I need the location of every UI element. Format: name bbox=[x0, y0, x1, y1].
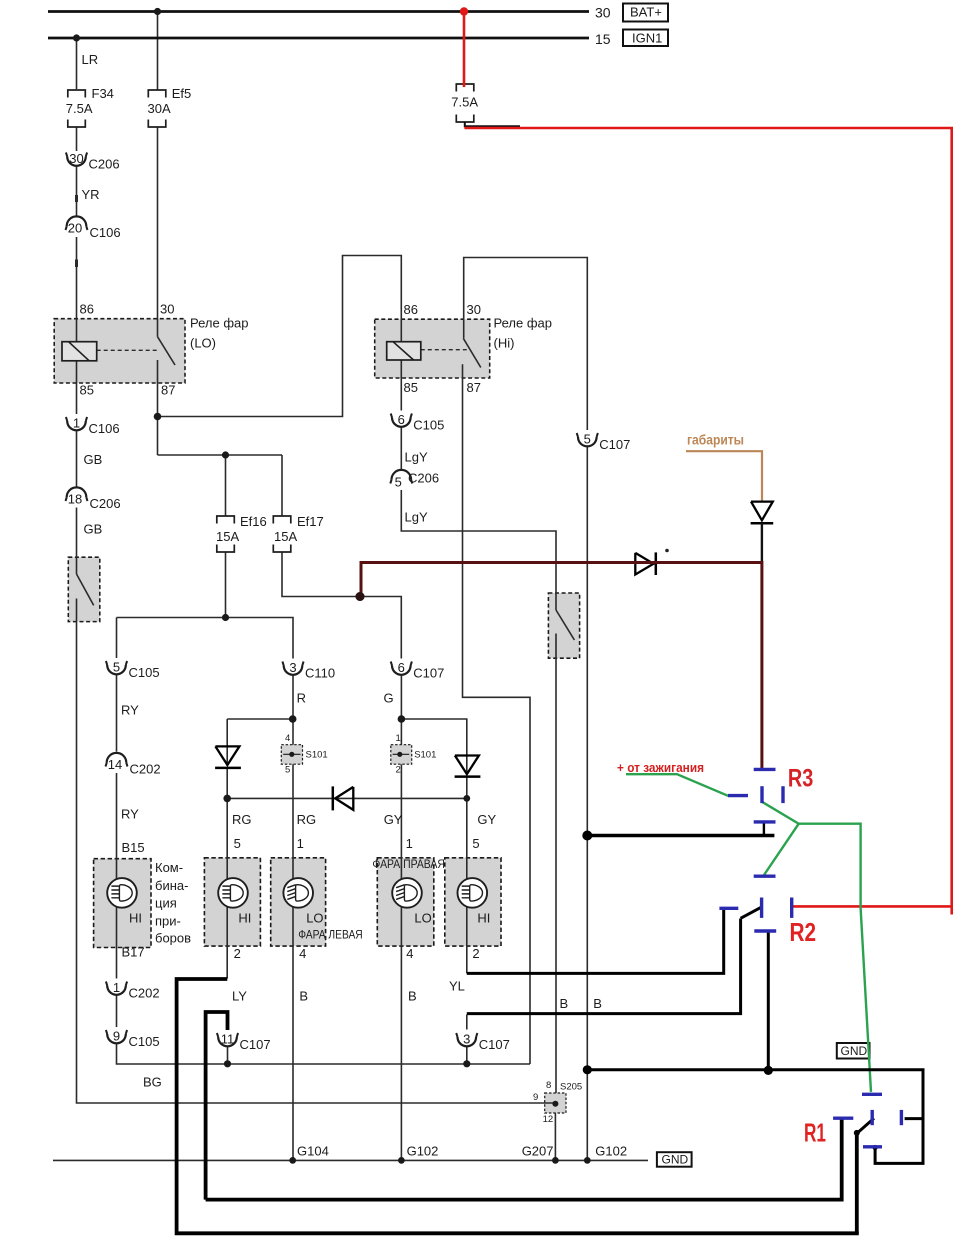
svg-text:габариты: габариты bbox=[687, 433, 744, 448]
svg-text:5: 5 bbox=[234, 836, 241, 851]
svg-text:(LO): (LO) bbox=[190, 336, 216, 351]
svg-text:боров: боров bbox=[155, 931, 191, 946]
svg-text:B: B bbox=[593, 996, 602, 1011]
svg-text:GY: GY bbox=[384, 812, 403, 827]
svg-text:4: 4 bbox=[406, 946, 413, 961]
svg-text:R3: R3 bbox=[788, 764, 813, 792]
svg-text:C202: C202 bbox=[129, 986, 160, 1001]
svg-text:IGN1: IGN1 bbox=[632, 31, 662, 46]
svg-text:2: 2 bbox=[472, 946, 479, 961]
svg-text:Ef16: Ef16 bbox=[240, 514, 267, 529]
svg-text:30A: 30A bbox=[148, 101, 171, 116]
svg-text:3: 3 bbox=[289, 660, 296, 675]
svg-text:GB: GB bbox=[84, 452, 103, 467]
svg-text:G102: G102 bbox=[595, 1144, 627, 1159]
svg-text:YL: YL bbox=[449, 979, 465, 994]
svg-text:6: 6 bbox=[398, 412, 405, 427]
svg-text:86: 86 bbox=[80, 302, 94, 317]
svg-text:B: B bbox=[299, 988, 308, 1003]
svg-text:8: 8 bbox=[546, 1080, 551, 1091]
svg-text:LR: LR bbox=[82, 52, 99, 67]
svg-text:G104: G104 bbox=[297, 1144, 329, 1159]
svg-text:GND: GND bbox=[662, 1153, 689, 1167]
svg-text:F34: F34 bbox=[92, 86, 114, 101]
svg-text:2: 2 bbox=[234, 946, 241, 961]
svg-text:C105: C105 bbox=[413, 418, 444, 433]
svg-text:S101: S101 bbox=[414, 750, 436, 761]
svg-text:30: 30 bbox=[69, 151, 83, 166]
svg-text:(Hi): (Hi) bbox=[494, 336, 515, 351]
svg-text:LgY: LgY bbox=[405, 450, 428, 465]
svg-text:4: 4 bbox=[299, 946, 306, 961]
svg-text:C105: C105 bbox=[129, 665, 160, 680]
svg-text:15A: 15A bbox=[274, 529, 297, 544]
svg-text:30: 30 bbox=[467, 302, 481, 317]
svg-text:7.5A: 7.5A bbox=[66, 101, 93, 116]
svg-text:86: 86 bbox=[404, 302, 418, 317]
svg-text:1: 1 bbox=[113, 980, 120, 995]
svg-text:1: 1 bbox=[406, 836, 413, 851]
svg-text:B: B bbox=[560, 996, 569, 1011]
svg-text:R1: R1 bbox=[804, 1117, 826, 1147]
svg-text:7.5A: 7.5A bbox=[451, 94, 478, 109]
svg-text:LO: LO bbox=[306, 910, 323, 925]
svg-text:12: 12 bbox=[543, 1114, 554, 1125]
svg-text:30: 30 bbox=[160, 302, 174, 317]
svg-text:C107: C107 bbox=[599, 437, 630, 452]
svg-text:R2: R2 bbox=[790, 917, 817, 947]
svg-text:R: R bbox=[297, 690, 306, 705]
svg-text:RG: RG bbox=[297, 812, 317, 827]
svg-text:85: 85 bbox=[404, 380, 418, 395]
svg-text:C206: C206 bbox=[89, 157, 120, 172]
svg-text:YR: YR bbox=[82, 187, 100, 202]
svg-text:RY: RY bbox=[121, 703, 139, 718]
svg-text:RG: RG bbox=[232, 812, 252, 827]
svg-text:B15: B15 bbox=[122, 840, 145, 855]
svg-text:C206: C206 bbox=[90, 496, 121, 511]
svg-text:5: 5 bbox=[395, 475, 402, 490]
svg-text:20: 20 bbox=[68, 221, 82, 236]
svg-text:C110: C110 bbox=[305, 666, 335, 681]
svg-text:S205: S205 bbox=[560, 1082, 582, 1093]
svg-text:HI: HI bbox=[477, 910, 490, 925]
svg-text:B17: B17 bbox=[122, 945, 145, 960]
svg-text:C106: C106 bbox=[90, 225, 121, 240]
svg-text:15A: 15A bbox=[216, 529, 239, 544]
svg-text:+ от зажигания: + от зажигания bbox=[617, 761, 704, 775]
svg-text:Реле фар: Реле фар bbox=[190, 316, 248, 331]
svg-text:85: 85 bbox=[80, 383, 94, 398]
svg-text:GB: GB bbox=[84, 522, 103, 537]
svg-text:1: 1 bbox=[396, 733, 401, 744]
svg-text:BAT+: BAT+ bbox=[630, 5, 662, 20]
svg-text:C105: C105 bbox=[129, 1034, 160, 1049]
svg-text:LO: LO bbox=[414, 910, 431, 925]
svg-text:3: 3 bbox=[463, 1032, 470, 1047]
svg-text:9: 9 bbox=[113, 1029, 120, 1044]
svg-text:B: B bbox=[408, 988, 417, 1003]
svg-text:1: 1 bbox=[73, 416, 80, 431]
svg-text:15: 15 bbox=[595, 31, 611, 47]
svg-text:5: 5 bbox=[472, 836, 479, 851]
svg-text:C202: C202 bbox=[130, 762, 161, 777]
svg-text:LY: LY bbox=[232, 988, 247, 1003]
svg-text:HI: HI bbox=[129, 910, 142, 925]
svg-text:6: 6 bbox=[398, 660, 405, 675]
svg-text:Ef17: Ef17 bbox=[297, 514, 324, 529]
svg-text:Ком-: Ком- bbox=[155, 860, 183, 875]
svg-text:ФАРА ЛЕВАЯ: ФАРА ЛЕВАЯ bbox=[298, 928, 363, 942]
svg-text:G102: G102 bbox=[407, 1144, 439, 1159]
svg-text:ФАРА ПРАВАЯ: ФАРА ПРАВАЯ bbox=[372, 857, 445, 871]
svg-text:BG: BG bbox=[143, 1074, 162, 1089]
svg-text:S101: S101 bbox=[306, 750, 328, 761]
svg-text:18: 18 bbox=[68, 492, 82, 507]
svg-text:1: 1 bbox=[297, 836, 304, 851]
svg-text:при-: при- bbox=[155, 913, 181, 928]
svg-text:87: 87 bbox=[467, 380, 481, 395]
svg-text:4: 4 bbox=[285, 733, 290, 744]
svg-text:14: 14 bbox=[108, 757, 122, 772]
svg-text:C107: C107 bbox=[240, 1037, 271, 1052]
svg-text:C107: C107 bbox=[479, 1037, 510, 1052]
svg-text:Ef5: Ef5 bbox=[172, 86, 192, 101]
svg-text:87: 87 bbox=[161, 383, 175, 398]
svg-text:11: 11 bbox=[221, 1032, 235, 1047]
svg-text:RY: RY bbox=[121, 806, 139, 821]
svg-text:C206: C206 bbox=[408, 471, 439, 486]
svg-text:2: 2 bbox=[396, 764, 401, 775]
svg-text:бина-: бина- bbox=[155, 878, 188, 893]
svg-text:ция: ция bbox=[155, 896, 177, 911]
svg-text:Реле фар: Реле фар bbox=[494, 316, 552, 331]
svg-text:5: 5 bbox=[113, 660, 120, 675]
svg-text:G: G bbox=[384, 690, 394, 705]
svg-text:G207: G207 bbox=[522, 1144, 554, 1159]
svg-text:GND: GND bbox=[841, 1044, 868, 1058]
svg-text:30: 30 bbox=[595, 5, 611, 21]
svg-text:5: 5 bbox=[285, 764, 290, 775]
svg-text:GY: GY bbox=[477, 812, 496, 827]
svg-text:9: 9 bbox=[533, 1092, 538, 1103]
svg-text:C107: C107 bbox=[413, 666, 444, 681]
svg-text:HI: HI bbox=[238, 910, 251, 925]
svg-text:5: 5 bbox=[584, 432, 591, 447]
svg-text:LgY: LgY bbox=[405, 510, 428, 525]
svg-text:C106: C106 bbox=[89, 421, 120, 436]
